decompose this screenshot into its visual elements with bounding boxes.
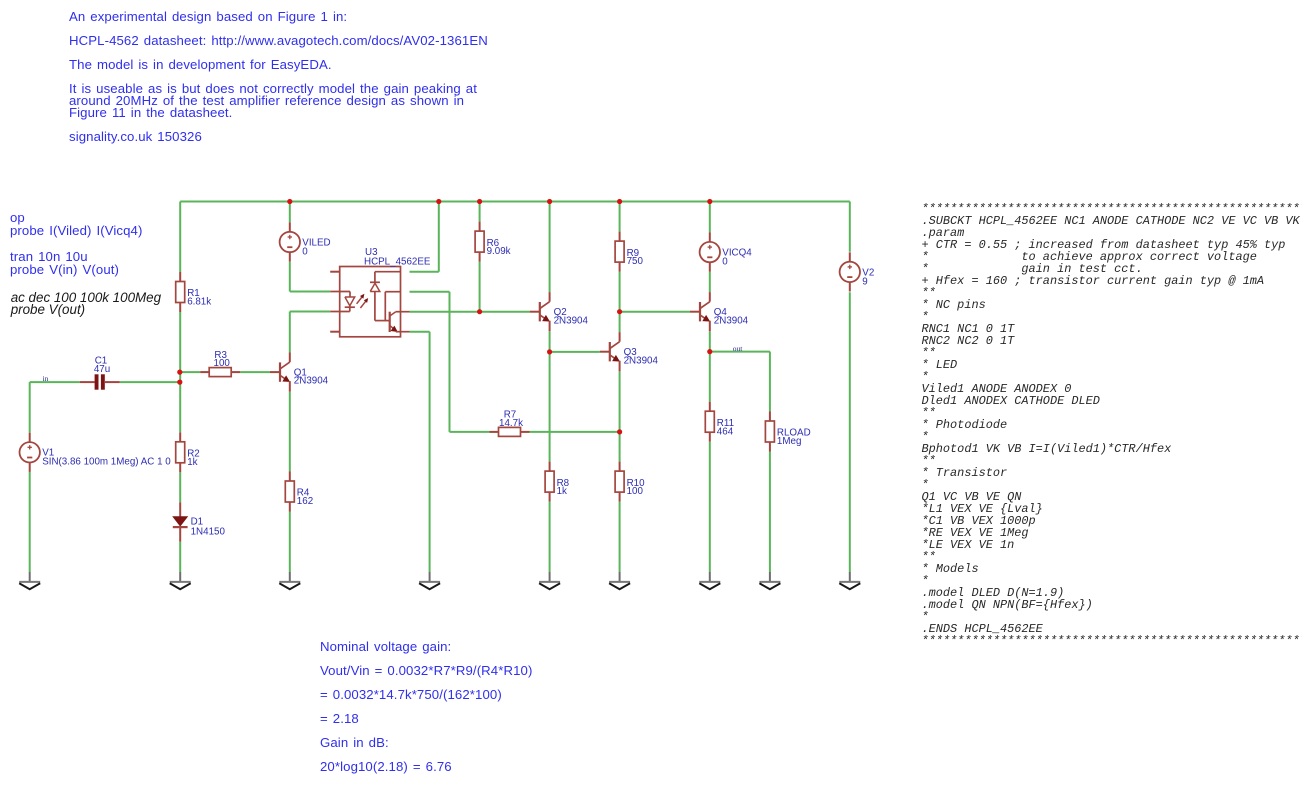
wire: out net to RLOAD — [710, 351, 770, 353]
wire: Q4 base net — [620, 311, 690, 313]
wire: left column R1/R2/D1 — [179, 202, 181, 273]
wire: V2 branch — [849, 202, 851, 252]
svg-text:0: 0 — [302, 246, 308, 257]
junction — [177, 380, 182, 385]
diode D1 1N4150 — [173, 502, 226, 541]
svg-text:2N3904: 2N3904 — [714, 315, 749, 326]
resistor R10 100 — [615, 462, 645, 502]
voltage source VILED 0 — [280, 222, 331, 261]
U3 pin NC2 — [330, 331, 340, 333]
U3 internal phototransistor — [390, 312, 410, 332]
svg-text:in: in — [43, 374, 49, 383]
junction — [436, 199, 441, 204]
transistor Q1 2N3904 — [270, 353, 329, 392]
gain calculation text — [320, 641, 451, 653]
svg-text:0: 0 — [722, 257, 728, 268]
ground — [539, 572, 560, 589]
transistor Q3 2N3904 — [600, 332, 659, 371]
resistor R3 100 — [200, 350, 240, 377]
resistor R6 9.09k — [475, 222, 511, 262]
wire: Q2 branch — [549, 202, 551, 293]
svg-text:2N3904: 2N3904 — [294, 376, 329, 387]
svg-text:out: out — [733, 344, 744, 353]
U3 VB internal connection — [385, 292, 400, 321]
svg-text:9.09k: 9.09k — [487, 246, 511, 257]
voltage source V1 SIN(3.86 100m 1Meg) AC 1 0 — [20, 433, 172, 472]
U3 internal photodiode — [370, 272, 390, 321]
simulation directives (blue) — [10, 211, 143, 237]
svg-text:SIN(3.86 100m 1Meg) AC 1 0: SIN(3.86 100m 1Meg) AC 1 0 — [42, 457, 171, 468]
svg-text:100: 100 — [214, 358, 231, 369]
U3 pin ANODE / internal LED — [330, 292, 355, 312]
svg-text:9: 9 — [862, 276, 867, 287]
svg-text:1N4150: 1N4150 — [191, 526, 226, 537]
wire: U3 cathode to Q1 collector — [290, 311, 330, 313]
svg-text:100: 100 — [627, 486, 644, 497]
ground — [279, 572, 300, 589]
resistor R11 464 — [705, 402, 734, 442]
capacitor C1 47u — [80, 356, 120, 390]
voltage source V2 9 — [840, 252, 875, 291]
wire: U3 VB pin to R7 — [410, 291, 450, 293]
svg-text:750: 750 — [627, 256, 644, 267]
wire: R9 / Q3 / R10 branch — [619, 202, 621, 232]
resistor R2 1k — [176, 432, 200, 472]
junction — [547, 349, 552, 354]
resistor R1 6.81k — [176, 272, 212, 312]
junction — [707, 349, 712, 354]
svg-text:2N3904: 2N3904 — [624, 355, 659, 366]
wire: V1 branch — [29, 382, 31, 433]
junction — [617, 309, 622, 314]
transistor Q2 2N3904 — [530, 292, 589, 331]
svg-text:1k: 1k — [557, 486, 567, 497]
resistor R9 750 — [615, 232, 643, 272]
junction — [287, 199, 292, 204]
U3 light arrows — [357, 295, 368, 308]
ground — [759, 572, 780, 589]
svg-text:47u: 47u — [94, 364, 110, 375]
junction — [617, 199, 622, 204]
junction — [547, 199, 552, 204]
ac directive (black italic) — [11, 292, 161, 316]
U3 pin CATHODE — [330, 311, 350, 313]
ground — [609, 572, 630, 589]
svg-text:162: 162 — [297, 496, 313, 507]
wire: VILED branch to U3 anode — [289, 202, 291, 223]
resistor R8 1k — [545, 462, 570, 502]
voltage source VICQ4 0 — [700, 233, 753, 272]
wire: U3 VK pin to top rail — [410, 271, 439, 273]
wire: R6 branch — [479, 202, 481, 222]
wire: input net 'in' — [30, 381, 80, 383]
svg-text:6.81k: 6.81k — [187, 297, 211, 308]
ground — [699, 572, 720, 589]
junction — [707, 199, 712, 204]
ground — [419, 572, 440, 589]
junction — [617, 429, 622, 434]
wire: R3 net (base of Q1) — [180, 371, 200, 373]
resistor R4 162 — [285, 472, 313, 512]
junction — [477, 199, 482, 204]
svg-text:1Meg: 1Meg — [777, 436, 802, 447]
top-left description text — [69, 11, 347, 23]
ground — [19, 572, 40, 589]
resistor RLOAD 1Meg — [765, 412, 810, 452]
transistor Q4 2N3904 — [690, 292, 749, 331]
ground — [839, 572, 860, 589]
optocoupler U3 HCPL_4562EE — [340, 247, 431, 337]
junction — [477, 309, 482, 314]
junction — [177, 370, 182, 375]
ground — [170, 572, 191, 589]
resistor R7 14.7k — [490, 410, 530, 437]
wire: Q1 emitter to R4 to ground — [289, 392, 291, 472]
wire: U3 VC pin to Q2 base — [410, 311, 530, 313]
wire: top supply rail — [180, 201, 850, 203]
wire: U3 VE pin to ground — [410, 331, 430, 333]
SPICE subcircuit listing — [922, 203, 1302, 647]
U3 pin NC1 — [330, 271, 340, 273]
svg-text:HCPL_4562EE: HCPL_4562EE — [364, 256, 431, 267]
U3 pin VK — [375, 271, 401, 273]
svg-text:2N3904: 2N3904 — [554, 315, 589, 326]
svg-text:1k: 1k — [187, 457, 197, 468]
wire: VICQ4 / Q4 / R11 branch — [709, 202, 711, 233]
svg-text:14.7k: 14.7k — [499, 418, 523, 429]
svg-text:464: 464 — [717, 426, 734, 437]
